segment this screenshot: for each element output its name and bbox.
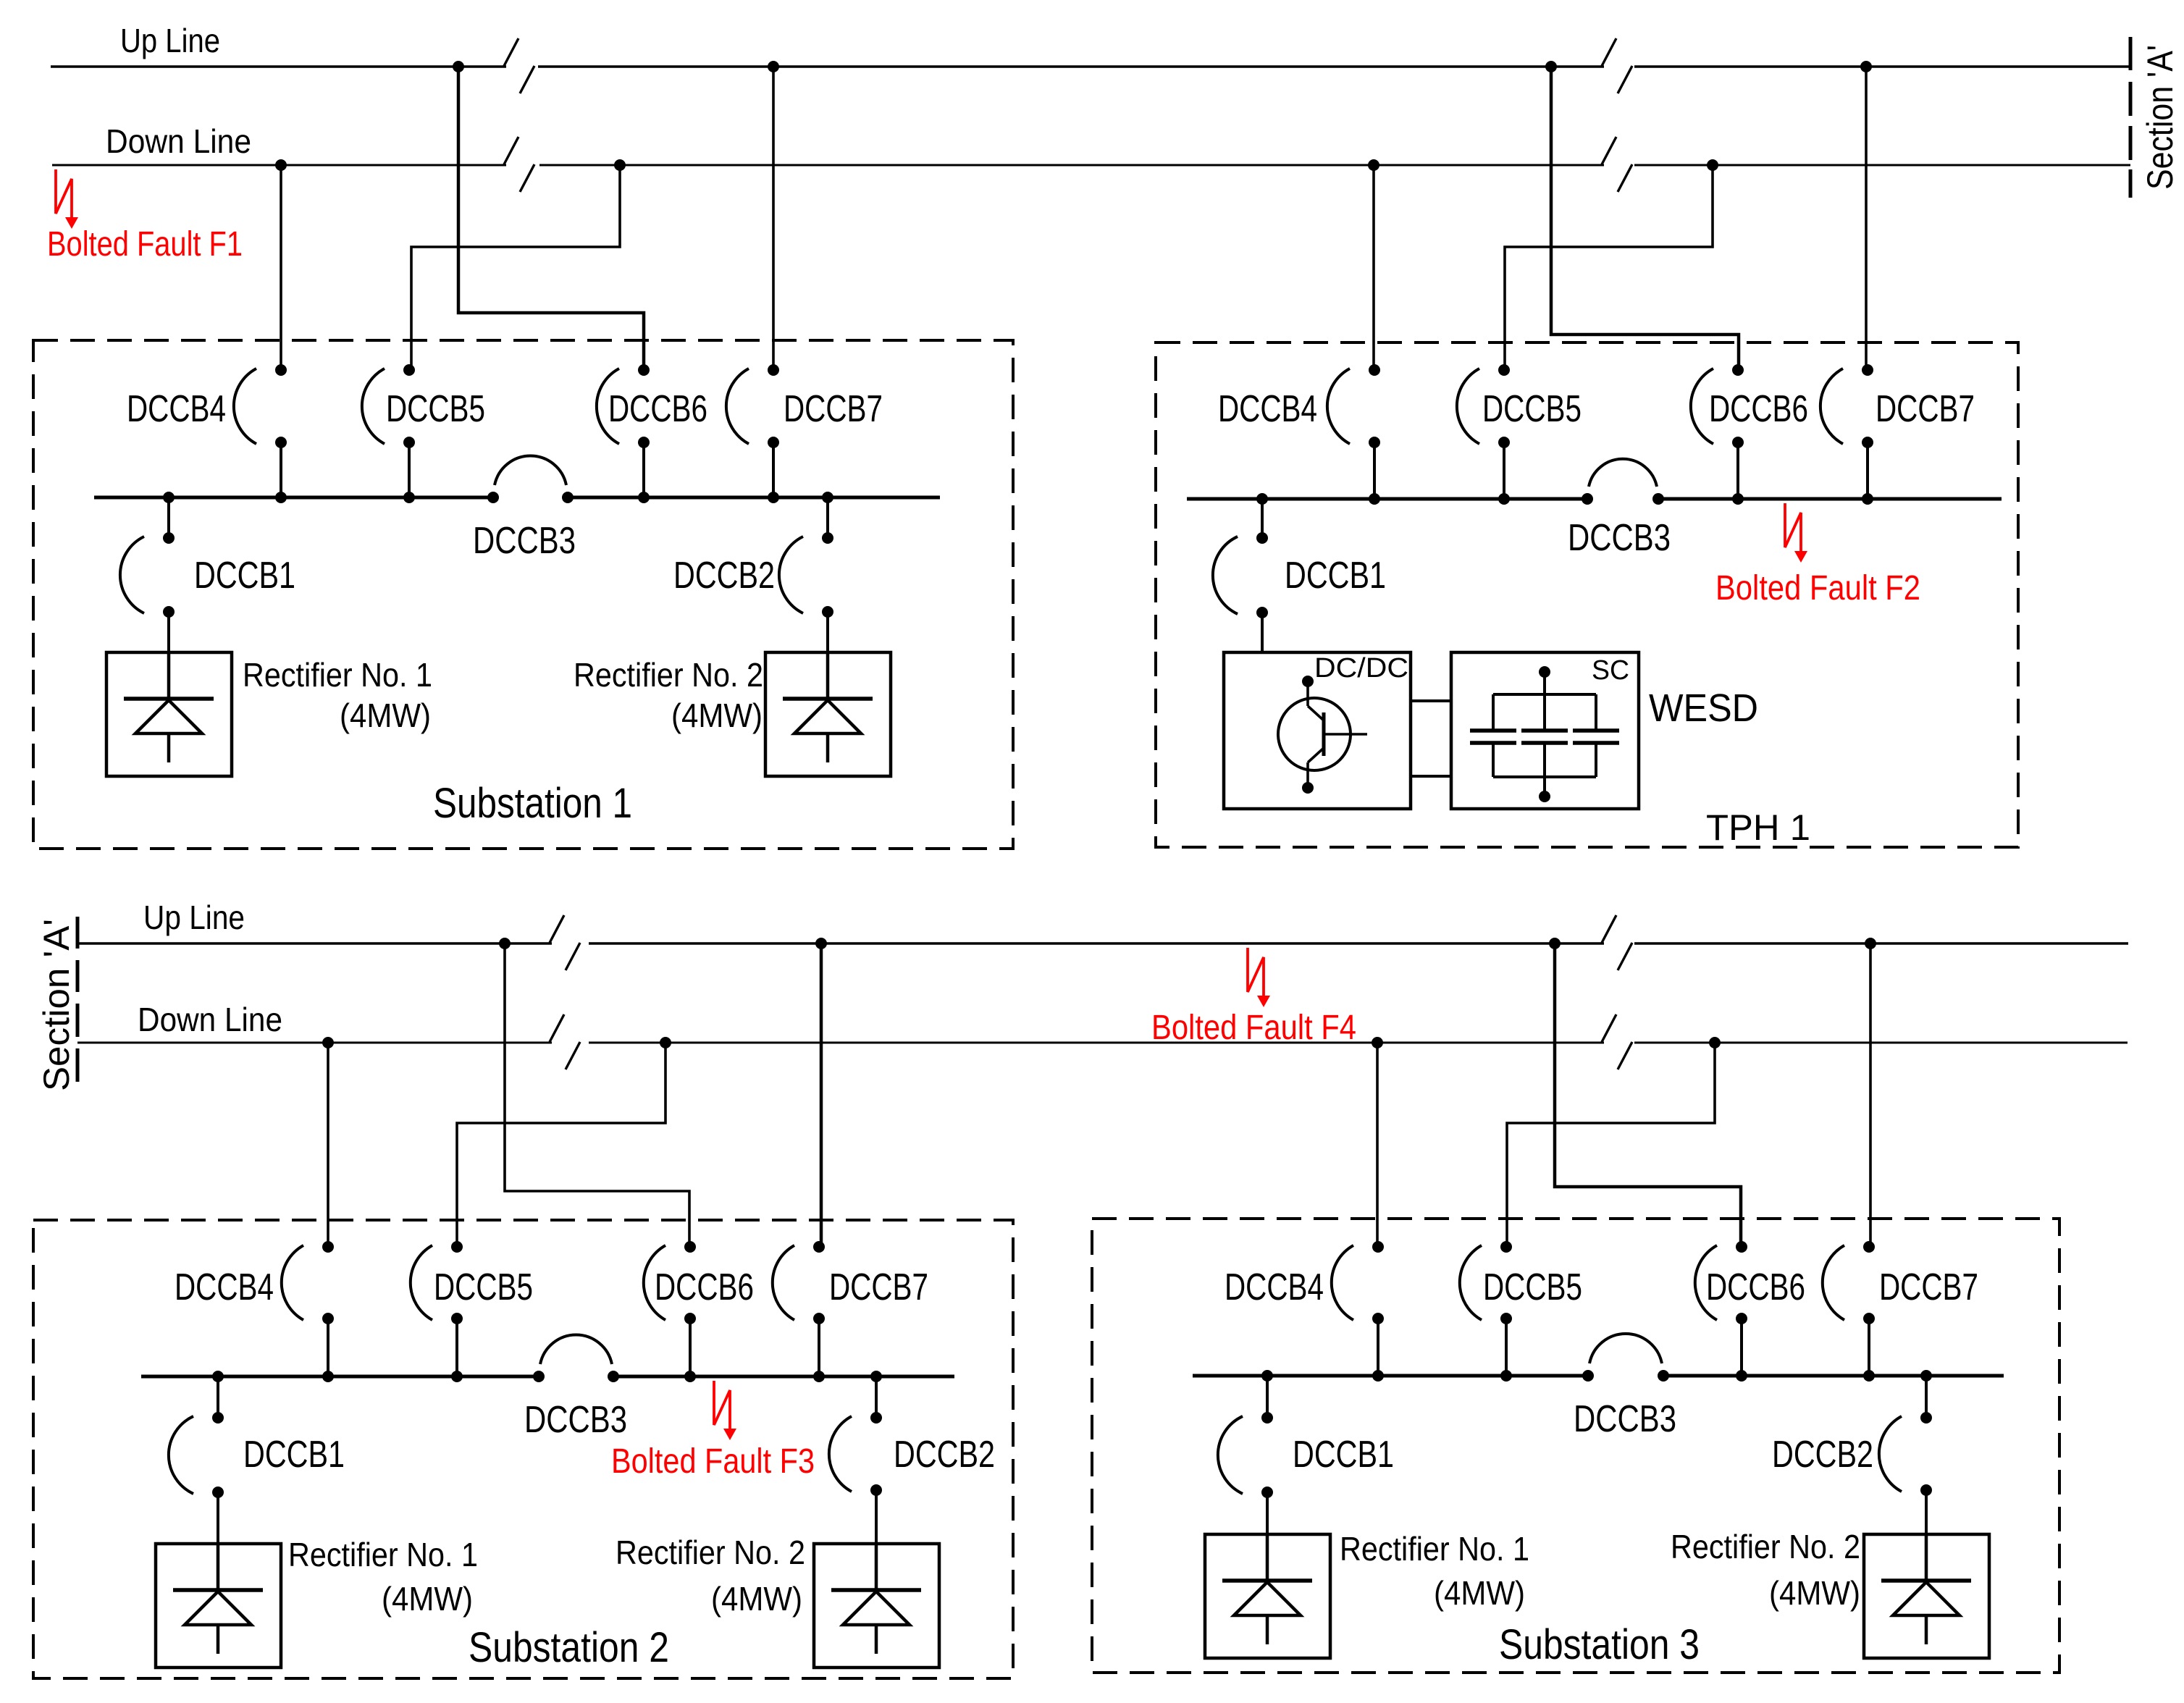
wire Up Line to DCCB7 S1 bbox=[772, 67, 775, 370]
svg-text:DCCB1: DCCB1 bbox=[243, 1434, 345, 1476]
svg-text:Bolted Fault F4: Bolted Fault F4 bbox=[1151, 1009, 1356, 1047]
svg-text:DCCB6: DCCB6 bbox=[1706, 1266, 1805, 1308]
circuit breaker DCCB2 Substation 2 bbox=[829, 1376, 882, 1496]
Substation 1 dashed enclosure bbox=[33, 340, 1013, 849]
circuit breaker DCCB5 Substation 3 bbox=[1460, 1241, 1512, 1376]
svg-text:Up Line: Up Line bbox=[120, 22, 220, 59]
svg-text:DCCB5: DCCB5 bbox=[1482, 388, 1582, 430]
wire Up Line (top) segment 2 bbox=[538, 65, 1604, 68]
svg-text:DCCB5: DCCB5 bbox=[1483, 1266, 1582, 1308]
circuit breaker DCCB2 Substation 3 bbox=[1879, 1376, 1932, 1496]
svg-text:Section 'A': Section 'A' bbox=[2140, 45, 2180, 190]
circuit breaker DCCB5 Substation 1 bbox=[362, 364, 415, 497]
svg-text:DCCB2: DCCB2 bbox=[673, 555, 775, 597]
circuit breaker DCCB4 Substation 3 bbox=[1332, 1241, 1384, 1376]
junction Up Line / DCCB7 feed S2 bbox=[815, 938, 827, 949]
circuit breaker DCCB7 TPH 1 bbox=[1820, 364, 1873, 499]
bus junction DCCB4 S3 bbox=[1372, 1370, 1384, 1382]
wire Up Line (bottom) segment 2 bbox=[589, 942, 1604, 945]
line break on Up Line (bottom-right) bbox=[1602, 915, 1632, 970]
svg-text:DCCB4: DCCB4 bbox=[127, 388, 226, 430]
wire Down Line to DCCB5 TPH1 bbox=[1505, 165, 1713, 370]
line break on Down Line (bottom-left) bbox=[550, 1014, 580, 1069]
svg-text:Down Line: Down Line bbox=[106, 122, 251, 160]
junction Down Line / DCCB4 feed S3 bbox=[1372, 1037, 1383, 1048]
section boundary marker (bottom left) bbox=[76, 917, 80, 1082]
bolted fault symbol F1 bbox=[56, 169, 78, 229]
circuit breaker DCCB6 Substation 3 bbox=[1695, 1241, 1747, 1376]
svg-text:DCCB3: DCCB3 bbox=[524, 1399, 627, 1441]
circuit breaker DCCB5 TPH 1 bbox=[1457, 364, 1510, 499]
junction Up Line / DCCB6 feed TPH1 bbox=[1545, 61, 1557, 72]
wire Up Line (top) segment 1 bbox=[51, 65, 506, 68]
bus-tie circuit breaker DCCB3 Substation 2 bbox=[533, 1334, 619, 1382]
circuit breaker DCCB4 Substation 2 bbox=[282, 1241, 334, 1376]
wire Down Line to DCCB4 S3 bbox=[1376, 1043, 1379, 1247]
wire DCCB2 to Rectifier 2 S3 bbox=[1925, 1490, 1928, 1534]
bus junction DCCB7 S1 bbox=[768, 492, 779, 503]
junction Up Line / DCCB7 feed TPH1 bbox=[1860, 61, 1872, 72]
wire Down Line to DCCB5 S1 bbox=[411, 165, 620, 370]
circuit breaker DCCB1 Substation 1 bbox=[120, 497, 175, 618]
line break on Up Line (top-right) bbox=[1602, 38, 1632, 93]
junction Up Line / DCCB7 feed S1 bbox=[768, 61, 779, 72]
busbar Substation 1 (left) bbox=[94, 496, 493, 500]
svg-text:Rectifier No. 2: Rectifier No. 2 bbox=[574, 656, 763, 694]
svg-text:Up Line: Up Line bbox=[143, 899, 245, 936]
wire Down Line (bottom) segment 3 bbox=[1634, 1042, 2128, 1044]
wire DCCB1 to Rectifier 1 S3 bbox=[1266, 1492, 1269, 1534]
bus junction DCCB1 tap TPH1 bbox=[1256, 493, 1268, 505]
junction Down Line / DCCB4 feed S1 bbox=[275, 159, 287, 171]
wire Down Line (top) segment 3 bbox=[1634, 164, 2130, 167]
bus-tie circuit breaker DCCB3 TPH 1 bbox=[1582, 459, 1664, 505]
bus-tie circuit breaker DCCB3 Substation 3 bbox=[1582, 1334, 1669, 1382]
svg-text:(4MW): (4MW) bbox=[1434, 1574, 1525, 1612]
bus junction DCCB5 TPH1 bbox=[1498, 493, 1510, 505]
rectifier No. 1 Substation 3 bbox=[1205, 1534, 1330, 1658]
rectifier No. 2 Substation 1 bbox=[765, 652, 891, 776]
junction Up Line / DCCB6 feed S3 bbox=[1549, 938, 1561, 949]
bolted fault symbol F2 bbox=[1785, 503, 1807, 563]
svg-text:DCCB3: DCCB3 bbox=[473, 520, 576, 562]
wire Up Line (bottom) segment 3 bbox=[1634, 942, 2128, 945]
bus junction DCCB7 S3 bbox=[1863, 1370, 1875, 1382]
svg-text:DCCB3: DCCB3 bbox=[1568, 517, 1671, 559]
svg-text:Section 'A': Section 'A' bbox=[36, 919, 77, 1091]
wire Up Line to DCCB6 S1 bbox=[458, 67, 644, 370]
rectifier No. 2 Substation 3 bbox=[1864, 1534, 1989, 1658]
bus junction DCCB4 S1 bbox=[275, 492, 287, 503]
svg-text:(4MW): (4MW) bbox=[382, 1580, 473, 1618]
svg-text:DCCB2: DCCB2 bbox=[1772, 1434, 1873, 1476]
Substation 3 dashed enclosure bbox=[1092, 1219, 2059, 1673]
circuit breaker DCCB7 Substation 2 bbox=[773, 1241, 825, 1376]
line break on Down Line (top-left) bbox=[504, 137, 534, 192]
busbar Substation 2 (left) bbox=[141, 1375, 539, 1379]
svg-text:DCCB4: DCCB4 bbox=[175, 1266, 274, 1308]
wire Up Line to DCCB7 S3 bbox=[1869, 943, 1872, 1247]
wire Up Line to DCCB7 S2 bbox=[820, 943, 823, 1247]
bus junction DCCB1 tap S1 bbox=[163, 492, 175, 503]
rectifier No. 1 Substation 2 bbox=[156, 1544, 281, 1668]
SC supercapacitor box bbox=[1451, 652, 1639, 809]
svg-text:DCCB7: DCCB7 bbox=[1879, 1266, 1978, 1308]
svg-text:(4MW): (4MW) bbox=[1769, 1574, 1860, 1612]
TPH 1 dashed enclosure bbox=[1156, 342, 2018, 847]
wire Down Line to DCCB4 TPH1 bbox=[1372, 165, 1375, 370]
bus junction DCCB6 S2 bbox=[684, 1371, 696, 1382]
svg-text:Down Line: Down Line bbox=[138, 1001, 282, 1038]
svg-text:(4MW): (4MW) bbox=[711, 1580, 802, 1618]
bus-tie circuit breaker DCCB3 Substation 1 bbox=[487, 456, 574, 504]
bus junction DCCB6 S1 bbox=[638, 492, 650, 503]
wire DCCB2 to Rectifier 2 S2 bbox=[875, 1490, 878, 1544]
wire Down Line to DCCB4 S2 bbox=[327, 1043, 329, 1247]
svg-text:Substation 1: Substation 1 bbox=[433, 780, 632, 827]
svg-text:Rectifier No. 2: Rectifier No. 2 bbox=[1671, 1528, 1860, 1565]
svg-text:DCCB5: DCCB5 bbox=[386, 388, 485, 430]
circuit breaker DCCB4 Substation 1 bbox=[234, 364, 287, 497]
bus junction DCCB4 TPH1 bbox=[1369, 493, 1380, 505]
circuit breaker DCCB7 Substation 3 bbox=[1823, 1241, 1875, 1376]
junction Down Line / DCCB4 feed TPH1 bbox=[1368, 159, 1379, 171]
wire Up Line to DCCB6 TPH1 bbox=[1551, 67, 1739, 370]
busbar Substation 1 (right) bbox=[568, 496, 940, 500]
busbar Substation 3 (left) bbox=[1193, 1374, 1588, 1378]
section boundary marker (top right) bbox=[2129, 37, 2133, 198]
svg-text:Substation 2: Substation 2 bbox=[469, 1624, 669, 1671]
circuit breaker DCCB6 Substation 2 bbox=[644, 1241, 696, 1376]
svg-text:DCCB4: DCCB4 bbox=[1218, 388, 1317, 430]
svg-text:DCCB7: DCCB7 bbox=[829, 1266, 928, 1308]
svg-text:(4MW): (4MW) bbox=[340, 697, 431, 734]
line break on Down Line (bottom-right) bbox=[1602, 1014, 1632, 1069]
svg-text:DCCB1: DCCB1 bbox=[194, 555, 295, 597]
wire Down Line to DCCB5 S3 bbox=[1507, 1043, 1715, 1247]
DC/DC transistor symbol bbox=[1278, 676, 1367, 794]
wire Up Line to DCCB6 S2 bbox=[505, 943, 689, 1247]
wire Down Line (top) segment 1 bbox=[52, 164, 506, 167]
svg-text:TPH 1: TPH 1 bbox=[1706, 807, 1810, 848]
bus junction DCCB6 S3 bbox=[1736, 1370, 1747, 1382]
svg-text:WESD: WESD bbox=[1649, 686, 1758, 730]
wire DCCB2 to Rectifier 2 S1 bbox=[826, 612, 829, 652]
wire Down Line (top) segment 2 bbox=[539, 164, 1604, 167]
svg-text:DC/DC: DC/DC bbox=[1314, 653, 1408, 684]
line break on Up Line (top-left) bbox=[504, 38, 534, 93]
junction Up Line / DCCB6 feed S2 bbox=[499, 938, 511, 949]
svg-text:DCCB5: DCCB5 bbox=[434, 1266, 533, 1308]
bus junction DCCB4 S2 bbox=[322, 1371, 334, 1382]
svg-text:Bolted Fault F2: Bolted Fault F2 bbox=[1715, 569, 1920, 607]
circuit breaker DCCB2 Substation 1 bbox=[779, 497, 833, 618]
Substation 2 dashed enclosure bbox=[33, 1220, 1013, 1678]
DC/DC converter box bbox=[1224, 652, 1411, 809]
junction Down Line / DCCB5 feed S1 bbox=[614, 159, 626, 171]
svg-text:DCCB4: DCCB4 bbox=[1225, 1266, 1324, 1308]
bus junction DCCB5 S1 bbox=[403, 492, 415, 503]
bus junction DCCB1 tap S3 bbox=[1261, 1370, 1273, 1382]
wire DCCB1 to Rectifier 1 S2 bbox=[217, 1492, 219, 1544]
bus junction DCCB5 S2 bbox=[451, 1371, 463, 1382]
circuit breaker DCCB6 TPH 1 bbox=[1691, 364, 1744, 499]
wire DC/DC to SC upper bbox=[1411, 699, 1451, 702]
svg-text:Rectifier No. 2: Rectifier No. 2 bbox=[616, 1534, 805, 1571]
circuit breaker DCCB1 Substation 2 bbox=[169, 1376, 224, 1498]
wire Up Line to DCCB7 TPH1 bbox=[1865, 67, 1868, 370]
bolted fault symbol F3 bbox=[714, 1381, 736, 1440]
rectifier No. 1 Substation 1 bbox=[106, 652, 232, 776]
svg-text:DCCB6: DCCB6 bbox=[608, 388, 707, 430]
junction Up Line / DCCB7 feed S3 bbox=[1865, 938, 1876, 949]
svg-text:Substation 3: Substation 3 bbox=[1499, 1621, 1700, 1668]
svg-text:SC: SC bbox=[1592, 655, 1629, 686]
busbar TPH 1 (left) bbox=[1187, 497, 1587, 501]
wire Down Line to DCCB4 S1 bbox=[280, 165, 282, 370]
svg-text:Rectifier No. 1: Rectifier No. 1 bbox=[243, 656, 432, 694]
bus junction DCCB7 S2 bbox=[813, 1371, 825, 1382]
svg-text:Rectifier No. 1: Rectifier No. 1 bbox=[288, 1536, 478, 1573]
wire Down Line (bottom) segment 2 bbox=[589, 1042, 1604, 1044]
svg-text:Rectifier No. 1: Rectifier No. 1 bbox=[1340, 1530, 1529, 1568]
wire Down Line (bottom) segment 1 bbox=[77, 1042, 552, 1044]
supercapacitor bank symbol bbox=[1470, 666, 1619, 802]
line break on Up Line (bottom-left) bbox=[550, 915, 580, 970]
wire Up Line (bottom) segment 1 bbox=[77, 942, 552, 945]
svg-text:DCCB6: DCCB6 bbox=[655, 1266, 754, 1308]
svg-text:DCCB1: DCCB1 bbox=[1293, 1434, 1394, 1476]
bus junction DCCB7 TPH1 bbox=[1862, 493, 1873, 505]
junction Down Line / DCCB5 feed S2 bbox=[660, 1037, 671, 1048]
busbar Substation 3 (right) bbox=[1663, 1374, 2004, 1378]
svg-text:Bolted Fault F3: Bolted Fault F3 bbox=[611, 1442, 815, 1481]
junction Down Line / DCCB5 feed TPH1 bbox=[1707, 159, 1718, 171]
wire Up Line (top) segment 3 bbox=[1634, 65, 2130, 68]
wire Up Line to DCCB6 S3 bbox=[1555, 943, 1741, 1247]
busbar Substation 2 (right) bbox=[613, 1375, 954, 1379]
svg-text:DCCB3: DCCB3 bbox=[1574, 1398, 1676, 1440]
circuit breaker DCCB4 TPH 1 bbox=[1327, 364, 1380, 499]
junction Up Line / DCCB6 feed S1 bbox=[453, 61, 464, 72]
bus junction DCCB2 tap S1 bbox=[822, 492, 833, 503]
svg-text:DCCB6: DCCB6 bbox=[1709, 388, 1808, 430]
circuit breaker DCCB1 Substation 3 bbox=[1218, 1376, 1273, 1498]
circuit breaker DCCB5 Substation 2 bbox=[411, 1241, 463, 1376]
junction Down Line / DCCB5 feed S3 bbox=[1709, 1037, 1721, 1048]
bus junction DCCB5 S3 bbox=[1500, 1370, 1512, 1382]
circuit breaker DCCB7 Substation 1 bbox=[726, 364, 779, 497]
svg-text:DCCB7: DCCB7 bbox=[1876, 388, 1975, 430]
svg-text:DCCB1: DCCB1 bbox=[1285, 555, 1386, 597]
svg-text:Bolted Fault F1: Bolted Fault F1 bbox=[47, 225, 243, 264]
line break on Down Line (top-right) bbox=[1602, 137, 1632, 192]
busbar TPH 1 (right) bbox=[1658, 497, 2002, 501]
bolted fault symbol F4 bbox=[1248, 948, 1270, 1007]
svg-text:(4MW): (4MW) bbox=[671, 697, 763, 734]
circuit breaker DCCB1 TPH 1 bbox=[1213, 499, 1268, 618]
bus junction DCCB6 TPH1 bbox=[1732, 493, 1744, 505]
junction Down Line / DCCB4 feed S2 bbox=[322, 1037, 334, 1048]
wire DCCB1 to Rectifier 1 S1 bbox=[167, 612, 170, 652]
bus junction DCCB1 tap S2 bbox=[212, 1371, 224, 1382]
svg-text:DCCB7: DCCB7 bbox=[784, 388, 883, 430]
rectifier No. 2 Substation 2 bbox=[814, 1544, 939, 1668]
bus junction DCCB2 tap S2 bbox=[870, 1371, 882, 1382]
wire DCCB1 to DC/DC TPH1 bbox=[1261, 613, 1264, 652]
wire DC/DC to SC lower bbox=[1411, 775, 1451, 778]
wire Down Line to DCCB5 S2 bbox=[457, 1043, 665, 1247]
circuit breaker DCCB6 Substation 1 bbox=[597, 364, 650, 497]
bus junction DCCB2 tap S3 bbox=[1920, 1370, 1932, 1382]
svg-text:DCCB2: DCCB2 bbox=[894, 1434, 995, 1476]
